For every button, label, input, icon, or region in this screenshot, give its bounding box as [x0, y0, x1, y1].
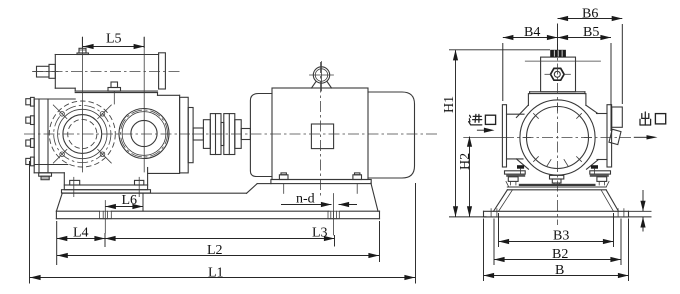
coupling disc pack left — [210, 114, 221, 155]
svg-text:H2: H2 — [458, 153, 473, 170]
svg-text:n-d: n-d — [296, 192, 315, 207]
inlet flange plate (left) — [502, 105, 506, 167]
pump foot pad right — [590, 171, 611, 185]
dimension L1 — [30, 161, 416, 284]
bottom center drain bolt — [550, 175, 564, 185]
pump foot bolts and plate — [70, 177, 144, 196]
svg-text:L5: L5 — [106, 32, 122, 47]
discharge pipe top/bottom (right) — [597, 114, 608, 160]
casing foot upper stud nut left (dark) — [517, 165, 524, 174]
bearing housing cylinder on top of pump — [55, 53, 165, 91]
screw bore circle (left, dashed) — [49, 101, 115, 167]
inlet arrow — [477, 128, 495, 133]
outlet flange plate (right) — [607, 105, 612, 167]
motor foot bolt left — [279, 173, 288, 194]
bearing bore circle (right) — [119, 109, 169, 159]
dimension H1 — [442, 50, 550, 217]
dimension B — [484, 219, 629, 282]
pump top face flange (double line) — [75, 91, 179, 95]
coupling spacer — [221, 123, 224, 146]
cover bolt 3 — [26, 139, 34, 148]
dimension B2 — [494, 219, 621, 266]
motor shaft — [241, 129, 250, 140]
pump foot pad left — [505, 171, 526, 185]
casing cover circle — [527, 107, 589, 169]
right bore centerline — [143, 37, 145, 172]
dimension B5 — [558, 25, 612, 131]
outlet upper block — [612, 107, 623, 127]
coupling hub left — [203, 120, 210, 149]
bedplate end view — [484, 211, 629, 217]
casing foot upper stud nut right (dark) — [591, 165, 598, 174]
drain plug under cover — [39, 173, 52, 180]
motor terminal box — [311, 124, 333, 149]
pump rear bearing plate — [180, 97, 189, 173]
bedplate left slant — [56, 193, 62, 211]
pump body top-left edge — [34, 98, 75, 100]
motor axis centerline — [192, 133, 439, 135]
pedestal top plate — [506, 181, 609, 189]
pump foot plate upper — [64, 185, 147, 190]
pedestal trapezoid inner walls — [499, 190, 614, 212]
suction pipe top/bottom (left) — [507, 114, 525, 159]
outlet slanted tab — [609, 129, 621, 144]
svg-text:B: B — [555, 263, 564, 278]
svg-text:L4: L4 — [73, 226, 89, 241]
motor pedestal left slant — [247, 184, 258, 194]
motor eye bolt — [310, 62, 334, 92]
bedplate right anchor slot — [618, 209, 624, 217]
svg-text:H1: H1 — [442, 96, 457, 113]
pump shaft to coupling — [193, 128, 203, 140]
pedestal top dark bar — [519, 184, 596, 186]
motor front endbell — [250, 94, 272, 177]
cover stud tick marks — [524, 104, 592, 167]
coupling hub right — [235, 120, 241, 149]
dimension n-d leader — [281, 192, 357, 208]
pump foot plate lower — [62, 190, 151, 193]
svg-text:L1: L1 — [208, 265, 224, 280]
cover side walls — [528, 94, 586, 106]
dimension L3 — [105, 226, 335, 247]
casing crosshair centerlines — [464, 44, 632, 225]
motor main frame — [272, 88, 368, 180]
bedplate pump rail top — [62, 192, 246, 194]
dimension H2 — [458, 136, 473, 217]
pump drive shaft stub — [34, 64, 59, 78]
left bore centerlines — [24, 37, 190, 172]
svg-text:L2: L2 — [207, 243, 223, 258]
svg-text:L6: L6 — [122, 193, 138, 208]
dimension L2 — [57, 221, 380, 262]
svg-text:B6: B6 — [582, 6, 598, 21]
outlet label 出口 drawn as strokes — [640, 112, 666, 125]
gusset ribs upper — [516, 106, 597, 118]
outlet arrow — [634, 135, 658, 139]
casing top cover double edge — [530, 92, 585, 94]
dimension B4 — [503, 24, 558, 102]
svg-text:B5: B5 — [583, 25, 599, 40]
anchor bolt hole left (n-d) — [99, 201, 111, 234]
dimension L5 — [82, 32, 144, 50]
cover bolt 1 — [26, 97, 34, 106]
pump left end cover — [34, 99, 68, 173]
motor pedestal right slant — [371, 183, 378, 211]
motor foot bolt right — [353, 173, 362, 194]
cover bolt 2 — [26, 116, 34, 125]
bedplate bar — [56, 211, 379, 219]
valve hex plug with circle — [545, 68, 571, 80]
svg-text:L3: L3 — [312, 226, 328, 241]
bolt on pump top face — [108, 82, 121, 104]
motor foot plate — [271, 180, 371, 184]
main casing circle — [520, 100, 595, 175]
cover bolt 4 — [26, 157, 34, 166]
pedestal trapezoid outer — [494, 190, 619, 212]
line through valve (casing rear top edge) — [525, 60, 600, 62]
dimension B6 — [558, 6, 623, 104]
svg-text:B2: B2 — [552, 247, 568, 262]
gusset ribs lower — [516, 159, 598, 169]
pump casing foot — [64, 168, 147, 186]
stud tick marks on left bore 45deg — [53, 105, 111, 163]
motor vertical centerline — [320, 62, 322, 196]
svg-text:B4: B4 — [524, 25, 540, 40]
inlet label 进口 drawn as strokes — [469, 114, 496, 125]
dimension L4 — [57, 221, 106, 265]
dimension L6 — [105, 193, 143, 212]
pump rear cap — [188, 108, 193, 163]
bolt on cylinder top left — [77, 48, 89, 54]
svg-text:B3: B3 — [553, 229, 569, 244]
pump body outline right and bottom — [34, 95, 179, 173]
dimension B3 — [499, 213, 614, 247]
valve top adjusting cap (dark, hatched) — [550, 50, 566, 57]
anchor bolt hole right (n-d, hatched) — [328, 194, 339, 236]
bedplate left anchor slot — [491, 209, 497, 217]
coupling disc pack right — [224, 114, 235, 155]
relief valve body on top — [541, 57, 576, 92]
dimension base thickness right — [629, 190, 652, 232]
motor rear endbell (fan cover) — [368, 92, 415, 178]
cylinder axis centerline — [32, 71, 180, 73]
